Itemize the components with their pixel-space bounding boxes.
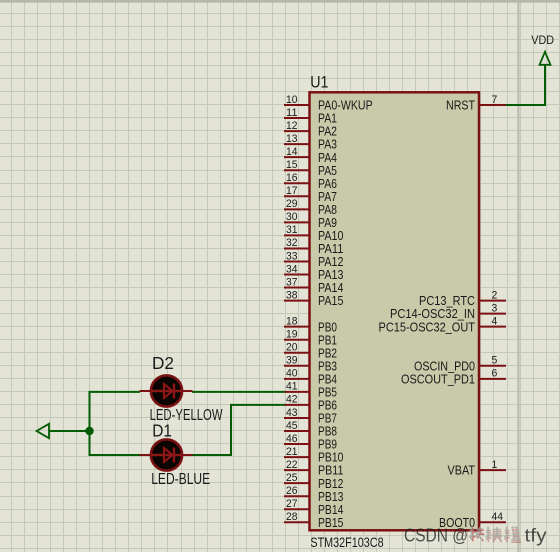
svg-text:VDD: VDD xyxy=(531,33,554,47)
svg-text:PB9: PB9 xyxy=(318,438,337,452)
svg-text:PA9: PA9 xyxy=(318,216,337,230)
svg-text:PA1: PA1 xyxy=(318,112,337,126)
svg-text:38: 38 xyxy=(286,289,298,301)
junction node xyxy=(85,427,93,435)
LED D1 (LED-BLUE) xyxy=(140,439,193,470)
pin 21 (PB10) xyxy=(284,446,343,465)
wire: junction to terminal xyxy=(49,430,90,432)
svg-text:41: 41 xyxy=(286,381,298,393)
wire: left bus D2 to D1 xyxy=(90,392,141,455)
pin 43 (PB7) xyxy=(284,407,337,426)
value label STM32F103C8 xyxy=(310,534,383,550)
wire: PB5 to LED D2 xyxy=(192,391,285,393)
svg-text:PA12: PA12 xyxy=(318,255,343,269)
pin 11 (PA1) xyxy=(284,107,337,126)
pin 26 (PB13) xyxy=(284,485,343,504)
svg-text:20: 20 xyxy=(286,342,298,354)
svg-text:28: 28 xyxy=(286,511,298,523)
pin 18 (PB0) xyxy=(284,315,337,334)
svg-text:25: 25 xyxy=(286,472,298,484)
svg-text:OSCIN_PD0: OSCIN_PD0 xyxy=(414,359,475,373)
svg-text:PB11: PB11 xyxy=(318,464,343,478)
svg-text:13: 13 xyxy=(286,133,298,145)
svg-text:PB8: PB8 xyxy=(318,425,337,439)
svg-text:2: 2 xyxy=(492,289,498,301)
pin 17 (PA7) xyxy=(284,185,337,204)
pin 32 (PA11) xyxy=(284,237,343,256)
svg-text:22: 22 xyxy=(286,459,298,471)
svg-text:18: 18 xyxy=(286,315,298,327)
pin 1 (VBAT) xyxy=(448,459,507,478)
svg-text:U1: U1 xyxy=(310,72,328,91)
LED D2 (LED-YELLOW) xyxy=(140,375,193,406)
svg-text:VBAT: VBAT xyxy=(448,464,476,478)
svg-text:PC13_RTC: PC13_RTC xyxy=(419,294,475,308)
pin 5 (OSCIN_PD0) xyxy=(414,355,506,374)
reference label U1 xyxy=(310,72,328,91)
svg-text:46: 46 xyxy=(286,433,298,445)
pin 38 (PA15) xyxy=(284,289,343,308)
svg-text:PB4: PB4 xyxy=(318,372,337,386)
watermark CSDN xyxy=(404,525,547,546)
pin 10 (PA0-WKUP) xyxy=(284,94,373,113)
svg-text:42: 42 xyxy=(286,394,298,406)
svg-text:PB10: PB10 xyxy=(318,451,343,465)
reference label D2 xyxy=(152,353,174,373)
svg-text:LED-BLUE: LED-BLUE xyxy=(151,471,210,488)
pin 28 (PB15) xyxy=(284,511,343,530)
svg-text:7: 7 xyxy=(492,94,498,106)
svg-text:31: 31 xyxy=(286,224,298,236)
pin 14 (PA4) xyxy=(284,146,337,165)
pin 19 (PB1) xyxy=(284,329,337,348)
svg-text:5: 5 xyxy=(492,355,498,367)
svg-text:12: 12 xyxy=(286,120,298,132)
pin 25 (PB12) xyxy=(284,472,343,491)
pin 20 (PB2) xyxy=(284,342,337,361)
pin 30 (PA9) xyxy=(284,211,337,230)
svg-text:32: 32 xyxy=(286,237,298,249)
IC U1 body (STM32F103C8) xyxy=(310,92,480,530)
svg-text:4: 4 xyxy=(492,315,498,327)
svg-text:37: 37 xyxy=(286,276,298,288)
svg-text:19: 19 xyxy=(286,329,298,341)
svg-text:PA2: PA2 xyxy=(318,125,337,139)
pin 2 (PC13_RTC) xyxy=(419,289,506,308)
svg-text:PA14: PA14 xyxy=(318,281,343,295)
pin 29 (PA8) xyxy=(284,198,337,217)
svg-text:PB0: PB0 xyxy=(318,320,337,334)
svg-text:PB5: PB5 xyxy=(318,385,337,399)
svg-text:OSCOUT_PD1: OSCOUT_PD1 xyxy=(401,372,475,386)
svg-text:3: 3 xyxy=(492,302,498,314)
svg-text:PB1: PB1 xyxy=(318,333,337,347)
pin 27 (PB14) xyxy=(284,498,343,517)
pin 4 (PC15-OSC32_OUT) xyxy=(379,315,507,334)
svg-text:PA8: PA8 xyxy=(318,203,337,217)
pin 46 (PB9) xyxy=(284,433,337,452)
svg-text:PA10: PA10 xyxy=(318,229,343,243)
svg-text:33: 33 xyxy=(286,250,298,262)
svg-text:D2: D2 xyxy=(152,353,174,373)
svg-text:tfy: tfy xyxy=(525,525,548,546)
svg-text:NRST: NRST xyxy=(446,99,475,113)
wire: NRST pin7 to VDD xyxy=(506,64,545,105)
svg-text:PA13: PA13 xyxy=(318,268,343,282)
svg-text:PB13: PB13 xyxy=(318,490,343,504)
svg-text:1: 1 xyxy=(492,459,498,471)
pin 7 (NRST) xyxy=(446,94,506,113)
svg-text:PA7: PA7 xyxy=(318,190,337,204)
pin 16 (PA6) xyxy=(284,172,337,191)
svg-text:STM32F103C8: STM32F103C8 xyxy=(310,534,383,550)
svg-text:PA0-WKUP: PA0-WKUP xyxy=(318,99,373,113)
svg-text:21: 21 xyxy=(286,446,298,458)
svg-text:17: 17 xyxy=(286,185,298,197)
svg-text:PA5: PA5 xyxy=(318,164,337,178)
terminal arrow (output, pointing left) xyxy=(37,424,49,438)
pin 12 (PA2) xyxy=(284,120,337,139)
svg-text:PA6: PA6 xyxy=(318,177,337,191)
svg-text:PB14: PB14 xyxy=(318,503,343,517)
svg-text:PA11: PA11 xyxy=(318,242,343,256)
svg-text:14: 14 xyxy=(286,146,298,158)
pin 45 (PB8) xyxy=(284,420,337,439)
svg-text:16: 16 xyxy=(286,172,298,184)
pin 40 (PB4) xyxy=(284,368,337,387)
svg-text:29: 29 xyxy=(286,198,298,210)
svg-text:PB7: PB7 xyxy=(318,412,337,426)
pin 13 (PA3) xyxy=(284,133,337,152)
svg-text:PB6: PB6 xyxy=(318,399,337,413)
wire: PB6 down to LED D1 xyxy=(192,405,285,455)
svg-text:44: 44 xyxy=(492,511,504,523)
svg-text:CSDN @: CSDN @ xyxy=(404,525,468,546)
pin 15 (PA5) xyxy=(284,159,337,178)
svg-text:D1: D1 xyxy=(152,421,172,441)
pin 6 (OSCOUT_PD1) xyxy=(401,368,506,387)
svg-text:PB3: PB3 xyxy=(318,359,337,373)
pin 34 (PA13) xyxy=(284,263,343,282)
svg-text:PB2: PB2 xyxy=(318,346,337,360)
svg-text:PA15: PA15 xyxy=(318,294,343,308)
svg-text:6: 6 xyxy=(492,368,498,380)
pin 41 (PB5) xyxy=(284,381,337,400)
svg-text:27: 27 xyxy=(286,498,298,510)
svg-text:PC14-OSC32_IN: PC14-OSC32_IN xyxy=(390,307,475,321)
svg-text:39: 39 xyxy=(286,355,298,367)
pin 37 (PA14) xyxy=(284,276,343,295)
svg-text:15: 15 xyxy=(286,159,298,171)
svg-text:PB12: PB12 xyxy=(318,477,343,491)
value label LED-YELLOW xyxy=(150,407,224,424)
value label LED-BLUE xyxy=(151,471,210,488)
pin 42 (PB6) xyxy=(284,394,337,413)
svg-text:PB15: PB15 xyxy=(318,516,343,530)
svg-text:PA4: PA4 xyxy=(318,151,337,165)
svg-text:26: 26 xyxy=(286,485,298,497)
pin 22 (PB11) xyxy=(284,459,343,478)
svg-text:11: 11 xyxy=(286,107,298,119)
pin 44 (BOOT0) xyxy=(439,511,506,530)
svg-text:10: 10 xyxy=(286,94,298,106)
pin 3 (PC14-OSC32_IN) xyxy=(390,302,506,321)
svg-text:PA3: PA3 xyxy=(318,138,337,152)
reference label D1 xyxy=(152,421,172,441)
svg-text:PC15-OSC32_OUT: PC15-OSC32_OUT xyxy=(379,320,476,334)
pin 31 (PA10) xyxy=(284,224,343,243)
svg-text:45: 45 xyxy=(286,420,298,432)
pin 33 (PA12) xyxy=(284,250,343,269)
svg-text:30: 30 xyxy=(286,211,298,223)
svg-text:40: 40 xyxy=(286,368,298,380)
pin 39 (PB3) xyxy=(284,355,337,374)
svg-text:43: 43 xyxy=(286,407,298,419)
power symbol VDD xyxy=(531,33,554,65)
svg-text:34: 34 xyxy=(286,263,298,275)
